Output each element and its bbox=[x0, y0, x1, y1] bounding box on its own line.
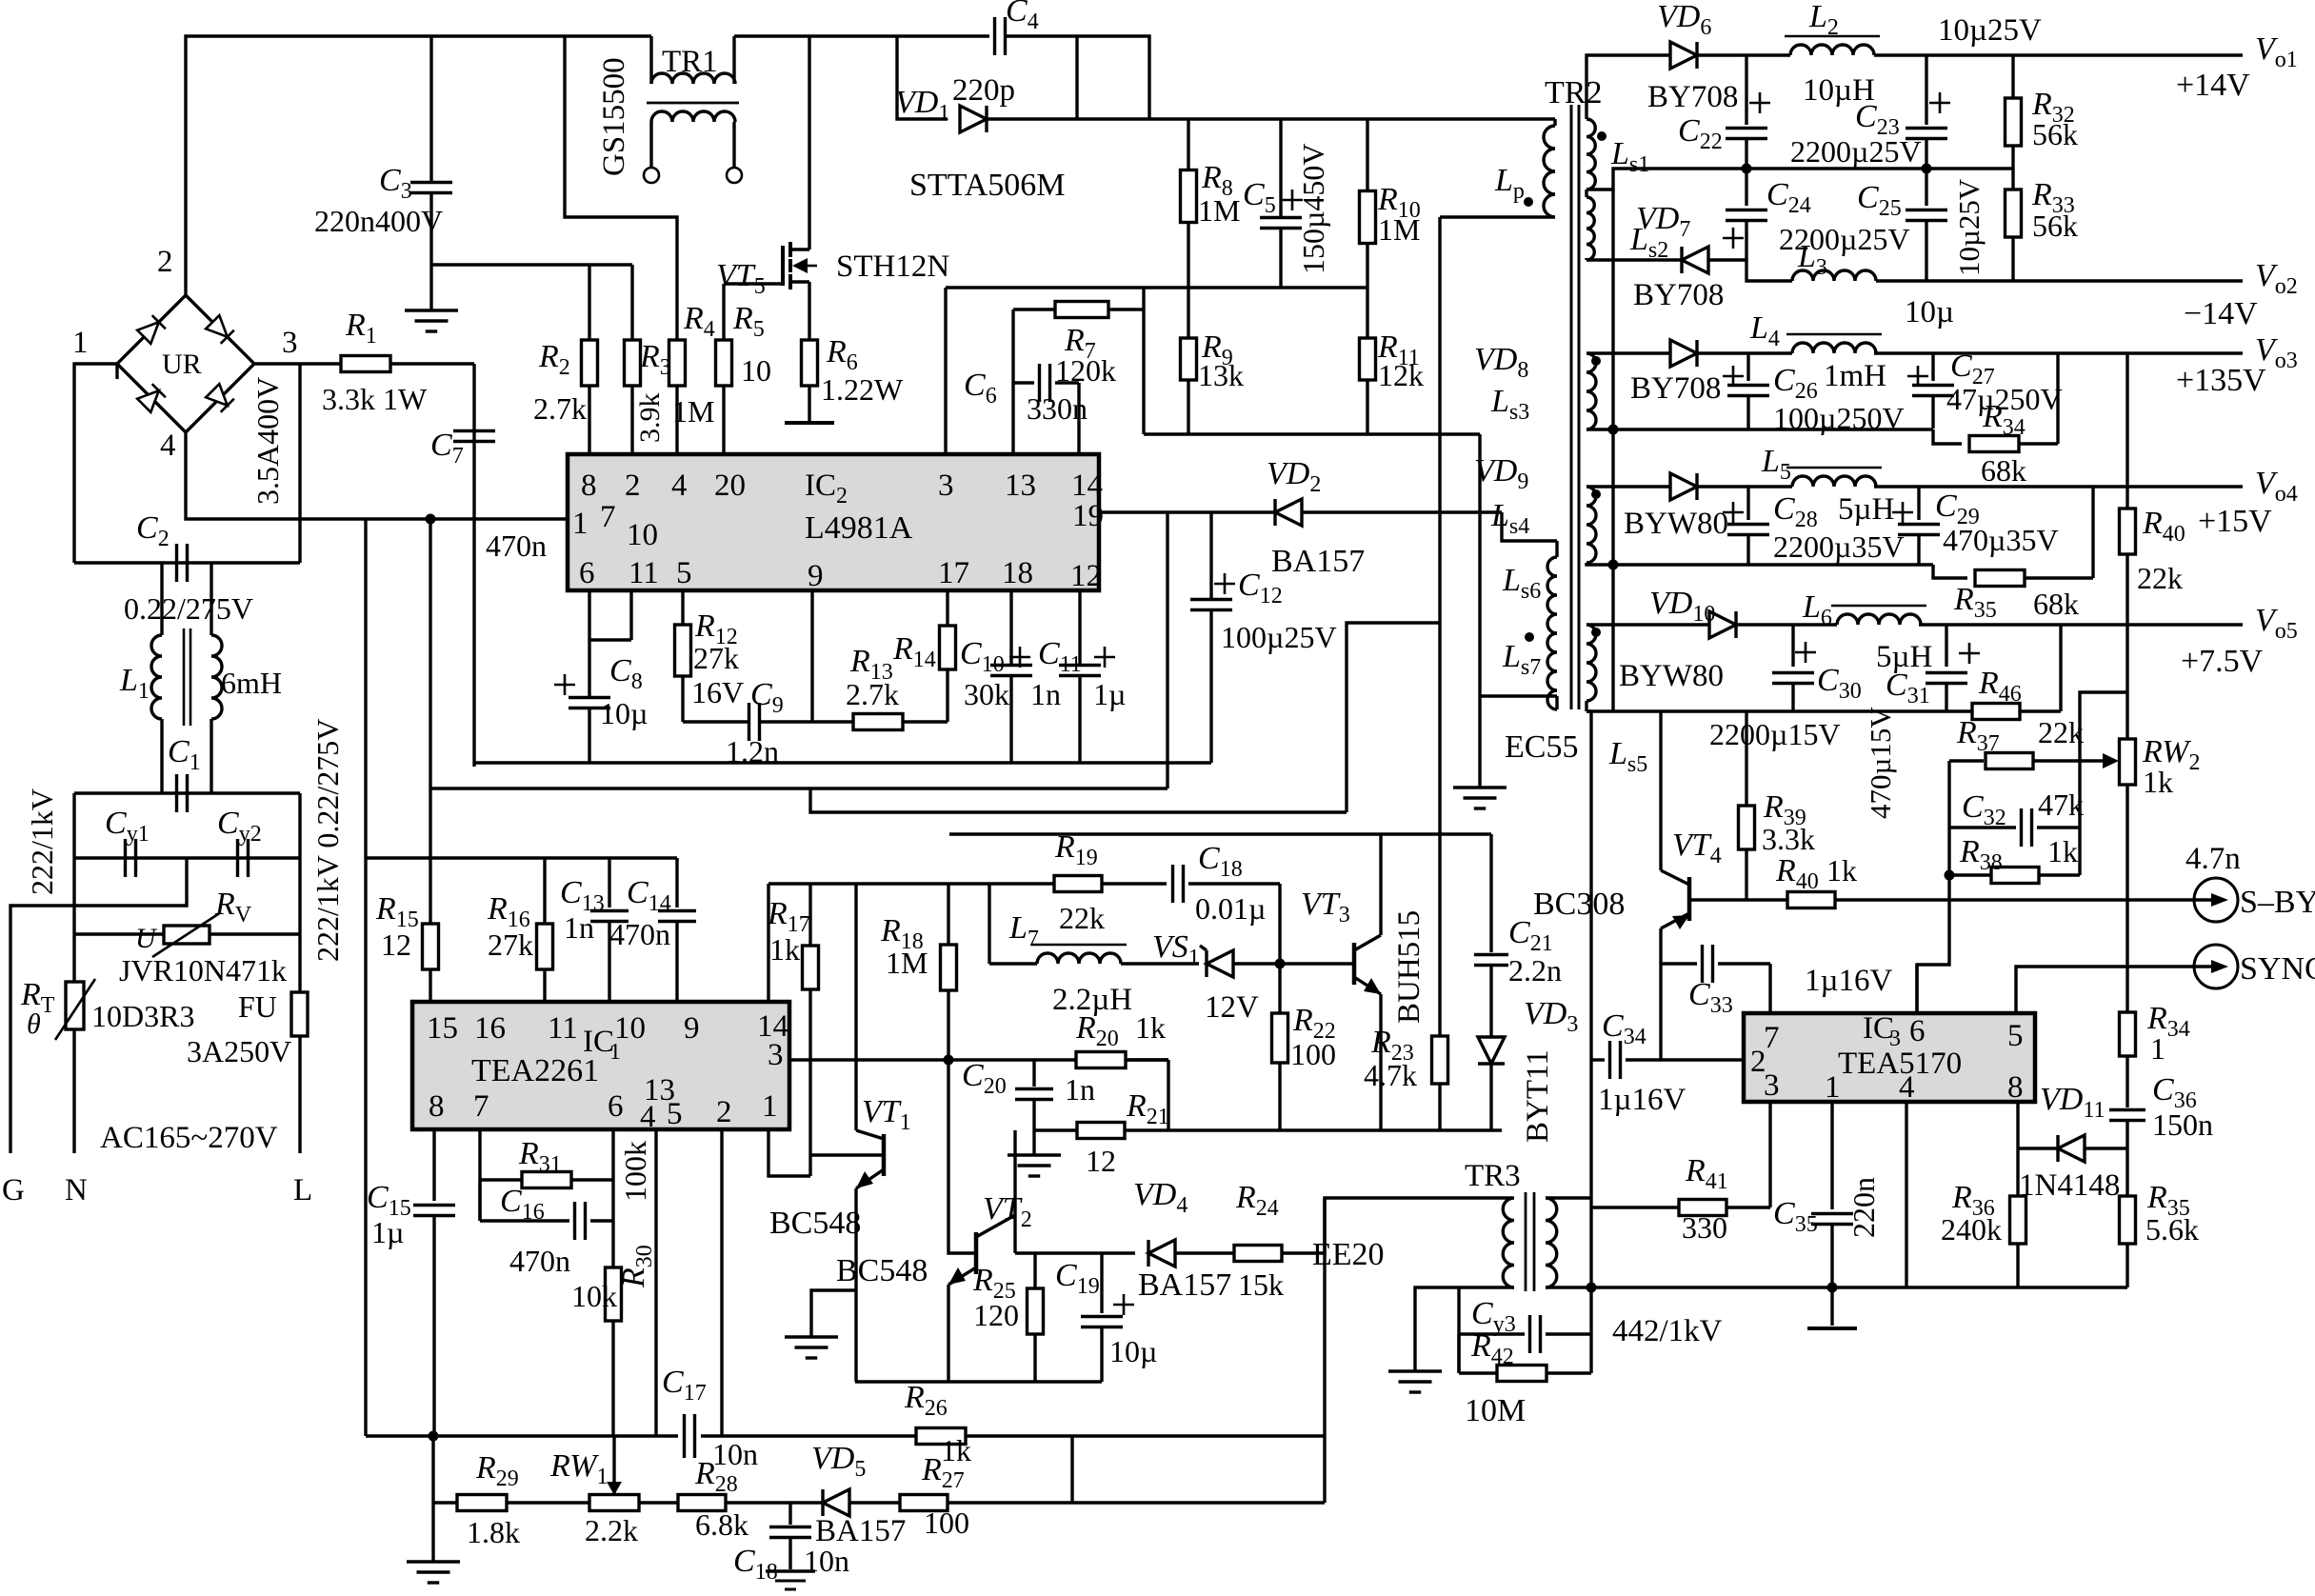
wire IC3 pin5 to SYNC bbox=[2016, 967, 2195, 1013]
svg-text:1n: 1n bbox=[1065, 1072, 1095, 1107]
row5 return wire bbox=[1587, 709, 1613, 712]
wire top bus drop to R4 bbox=[565, 36, 677, 339]
junction dot VT3 base node bbox=[1275, 959, 1286, 969]
svg-text:27k: 27k bbox=[488, 928, 533, 962]
diode VD11 1N4148 bbox=[2016, 1102, 2019, 1148]
svg-text:IC: IC bbox=[805, 469, 836, 503]
ground below C20 bbox=[1032, 1130, 1035, 1155]
diode VD5 BA157 bbox=[790, 1501, 823, 1504]
terminal SYNC bbox=[2194, 945, 2238, 988]
svg-text:222/1kV: 222/1kV bbox=[25, 788, 59, 895]
svg-text:3.3k 1W: 3.3k 1W bbox=[322, 382, 428, 416]
svg-text:GS15500: GS15500 bbox=[597, 57, 631, 176]
svg-text:1n: 1n bbox=[1030, 677, 1061, 711]
wire bus 876 VT3 collector link bbox=[949, 832, 1440, 835]
capacitor C4 in top bus bbox=[993, 17, 996, 55]
resistor R25 120 bbox=[1033, 1253, 1036, 1288]
svg-text:4: 4 bbox=[640, 1100, 656, 1134]
svg-text:G: G bbox=[2, 1173, 25, 1207]
resistor R17 1k bbox=[808, 884, 811, 946]
svg-text:12: 12 bbox=[1086, 1144, 1116, 1178]
svg-text:3A250V: 3A250V bbox=[187, 1034, 291, 1068]
svg-text:3: 3 bbox=[938, 469, 954, 503]
svg-text:470n: 470n bbox=[486, 529, 547, 563]
svg-text:10µ: 10µ bbox=[1905, 295, 1954, 329]
resistor R30 10k bbox=[611, 1221, 614, 1267]
resistor R4 bbox=[669, 340, 686, 386]
resistor R6 bbox=[802, 340, 818, 386]
svg-text:6mH: 6mH bbox=[221, 666, 282, 700]
wire TR3 secondary to 1671 column and bus bbox=[1546, 1196, 1591, 1199]
resistor R34b 1 bbox=[2125, 967, 2128, 1012]
wire VD2 to Ls6 top bbox=[1502, 512, 1557, 541]
svg-text:UR: UR bbox=[162, 349, 202, 380]
svg-text:2200µ25V: 2200µ25V bbox=[1779, 222, 1910, 256]
svg-text:U: U bbox=[135, 923, 158, 954]
svg-text:2: 2 bbox=[836, 484, 848, 509]
svg-text:22k: 22k bbox=[2038, 715, 2084, 749]
svg-text:3.9k: 3.9k bbox=[634, 393, 666, 444]
svg-text:10µ: 10µ bbox=[1109, 1334, 1157, 1368]
transformer TR2 core bbox=[1570, 105, 1573, 709]
svg-text:15: 15 bbox=[427, 1011, 458, 1046]
svg-text:1k: 1k bbox=[1826, 853, 1857, 888]
svg-text:S–BY: S–BY bbox=[2240, 885, 2315, 920]
junction dot common 451 bbox=[1608, 425, 1619, 435]
svg-text:1n: 1n bbox=[564, 910, 594, 945]
svg-text:BA157: BA157 bbox=[1138, 1267, 1231, 1303]
inductor L5 5uH bbox=[1792, 476, 1876, 487]
capacitor C30 electrolytic bbox=[1791, 625, 1794, 667]
svg-text:TR3: TR3 bbox=[1465, 1159, 1521, 1193]
capacitor C7 bbox=[472, 364, 475, 767]
wire R9 R11 bottom bus to primary ground bbox=[1144, 432, 1480, 435]
svg-text:1µ16V: 1µ16V bbox=[1805, 964, 1893, 998]
svg-text:20: 20 bbox=[714, 469, 746, 503]
svg-text:2.7k: 2.7k bbox=[533, 391, 587, 426]
wire IC3 pin6 riser bbox=[1915, 965, 1918, 1013]
capacitor C26 electrolytic bbox=[1746, 353, 1749, 381]
svg-text:56k: 56k bbox=[2032, 117, 2078, 151]
capacitor C21 2.2n bbox=[1440, 832, 1491, 835]
inductor L4 1mH bbox=[1792, 343, 1876, 353]
wire R15 column from 470n bus to IC1 pin15 bbox=[429, 519, 431, 924]
diode VD4 BA157 bbox=[1148, 1240, 1175, 1267]
svg-text:10M: 10M bbox=[1465, 1393, 1526, 1428]
svg-text:2: 2 bbox=[716, 1095, 732, 1129]
wire VT2 base from pin3 bus bbox=[948, 1060, 976, 1253]
svg-text:47k: 47k bbox=[2038, 788, 2084, 822]
resistor R13 bbox=[853, 714, 903, 730]
wire R21 bus to VT3 emitter and BYT11 bbox=[1168, 1128, 1502, 1131]
svg-text:330n: 330n bbox=[1027, 391, 1088, 426]
wire right rail C1 bus to FU bbox=[298, 793, 301, 992]
wire top bus TR1 to C4 segment bbox=[734, 34, 989, 37]
transformer TR1 bbox=[597, 36, 742, 183]
svg-text:BY708: BY708 bbox=[1647, 80, 1738, 114]
svg-text:BY708: BY708 bbox=[1633, 278, 1724, 312]
svg-text:2200µ25V: 2200µ25V bbox=[1790, 134, 1922, 169]
svg-text:13: 13 bbox=[1005, 469, 1036, 503]
svg-text:9: 9 bbox=[684, 1011, 700, 1046]
junction dot TR3 secondary bottom bbox=[1587, 1283, 1597, 1293]
IC2 L4981A box bbox=[568, 454, 1099, 590]
svg-text:θ: θ bbox=[27, 1008, 41, 1040]
wire VT4 collector from row5 return bbox=[1659, 711, 1662, 870]
wire bridge node3 to R1 bbox=[254, 362, 342, 365]
svg-text:5: 5 bbox=[676, 556, 692, 590]
svg-text:1: 1 bbox=[762, 1089, 778, 1124]
svg-text:7: 7 bbox=[600, 500, 616, 534]
transistor VT1 BC548 bbox=[769, 884, 911, 1382]
svg-text:47µ250V: 47µ250V bbox=[1946, 382, 2063, 416]
resistor R23 4.7k bbox=[1432, 1036, 1448, 1084]
svg-text:1: 1 bbox=[1825, 1070, 1841, 1105]
capacitor C10 bbox=[1009, 590, 1012, 665]
svg-text:16: 16 bbox=[474, 1011, 506, 1046]
diode VD8 BY708 bbox=[1635, 351, 1670, 354]
svg-text:AC165~270V: AC165~270V bbox=[100, 1121, 278, 1155]
svg-text:10µ25V: 10µ25V bbox=[1952, 178, 1986, 276]
svg-text:13k: 13k bbox=[1198, 358, 1244, 392]
wire bus 828 to VD2 riser bbox=[431, 787, 1167, 789]
wire IC1 pin7 pin6 R31 loop bbox=[478, 1129, 481, 1221]
svg-text:100k: 100k bbox=[618, 1141, 652, 1202]
svg-text:470µ15V: 470µ15V bbox=[1864, 707, 1897, 819]
capacitor Cy1 bbox=[74, 856, 300, 859]
diode VD7 BY708 bbox=[1682, 247, 1708, 273]
svg-text:8: 8 bbox=[429, 1089, 445, 1124]
svg-text:+14V: +14V bbox=[2176, 68, 2250, 103]
svg-text:10k: 10k bbox=[571, 1279, 617, 1313]
diode VD1 bypass bbox=[897, 36, 948, 119]
transformer TR3 EE20 bbox=[1312, 1159, 1557, 1291]
svg-text:1mH: 1mH bbox=[1824, 359, 1886, 393]
winding Ls5 bbox=[1587, 625, 1647, 777]
svg-text:+135V: +135V bbox=[2176, 363, 2266, 398]
svg-text:1: 1 bbox=[72, 326, 89, 360]
resistor R7 120k bbox=[1013, 288, 1144, 454]
svg-text:2200µ15V: 2200µ15V bbox=[1709, 717, 1841, 751]
resistor R33 56k bbox=[2011, 169, 2014, 190]
inductor L2 10uH bbox=[1790, 45, 1874, 55]
capacitor C9 bbox=[683, 720, 748, 723]
svg-text:12: 12 bbox=[381, 928, 411, 962]
junction dot on 470n bus bbox=[426, 514, 436, 525]
terminal S-BY bbox=[2194, 878, 2238, 922]
wire IC1 pin2 ground column bbox=[720, 1129, 723, 1436]
svg-text:STH12N: STH12N bbox=[836, 249, 949, 284]
inductor L1 common-mode choke bbox=[119, 563, 282, 793]
resistor R22 100 bbox=[1278, 964, 1281, 1013]
svg-text:150µ450V: 150µ450V bbox=[1296, 143, 1330, 274]
svg-text:+15V: +15V bbox=[2198, 504, 2272, 539]
row3 return wire bbox=[1613, 428, 1748, 430]
svg-text:1.8k: 1.8k bbox=[467, 1515, 520, 1549]
capacitor C19 electrolytic 10u bbox=[1100, 1253, 1103, 1313]
wire C18 drop to VS1 node bbox=[1278, 884, 1281, 964]
svg-text:BC308: BC308 bbox=[1533, 887, 1625, 922]
svg-text:5µH: 5µH bbox=[1838, 492, 1894, 527]
capacitor C1 bbox=[74, 791, 300, 794]
diode VD6 BY708 bbox=[1634, 53, 1670, 56]
wire IC1 pin3 bus bbox=[789, 1058, 1168, 1061]
capacitor C17 in bus bbox=[683, 1414, 686, 1458]
capacitor C31 electrolytic bbox=[1945, 625, 1947, 667]
svg-text:150n: 150n bbox=[2152, 1107, 2213, 1142]
resistor R1 bbox=[341, 356, 390, 372]
svg-text:1.22W: 1.22W bbox=[821, 372, 904, 407]
resistor R46 22k bbox=[1972, 704, 2020, 720]
wire IC3 ground bus 1348 bbox=[1591, 1286, 2127, 1288]
ground bar below R6 bbox=[785, 421, 834, 425]
svg-text:11: 11 bbox=[548, 1011, 578, 1046]
svg-text:330: 330 bbox=[1682, 1210, 1727, 1245]
resistor R14 bbox=[946, 590, 948, 627]
wire IC2 pin3 up to R7 C6 bus bbox=[944, 288, 947, 454]
wire C13 C14 bus 901 bbox=[366, 856, 677, 859]
svg-text:11: 11 bbox=[629, 556, 659, 590]
wire C3 branch to R2 R3 tops bbox=[431, 263, 632, 266]
wire TR3 primary column to bottom line bbox=[1323, 1198, 1326, 1503]
svg-text:100µ25V: 100µ25V bbox=[1221, 620, 1337, 654]
capacitor C13 1n bbox=[608, 858, 610, 908]
wire R29 RW1 R28 VD5 R27 line bbox=[433, 1501, 457, 1504]
resistor R21 12 bbox=[1034, 1128, 1077, 1131]
capacitor C35 220n bbox=[1830, 1102, 1833, 1209]
svg-text:4: 4 bbox=[1899, 1070, 1915, 1105]
svg-text:STTA506M: STTA506M bbox=[909, 168, 1066, 203]
svg-text:240k: 240k bbox=[1941, 1212, 2002, 1247]
wire left rail C1 bus to RT bbox=[72, 793, 75, 982]
svg-text:3.3k: 3.3k bbox=[1762, 822, 1815, 856]
resistor R40 22k bbox=[2125, 487, 2128, 509]
resistor R38 1k bbox=[1949, 873, 1991, 876]
wire rail Vo3 to R40 column crossing bbox=[2125, 353, 2128, 487]
svg-text:9: 9 bbox=[808, 559, 824, 593]
svg-text:18: 18 bbox=[1002, 556, 1033, 590]
resistor R35b 5.6k bbox=[2120, 1196, 2136, 1244]
svg-text:4.7n: 4.7n bbox=[2185, 842, 2241, 876]
wire R37 node jog to R40 column bbox=[2080, 692, 2127, 761]
svg-text:1M: 1M bbox=[1378, 212, 1420, 247]
resistor R35 68k bbox=[1975, 570, 2025, 587]
wire ground column below dot bbox=[431, 1436, 434, 1562]
svg-text:+7.5V: +7.5V bbox=[2181, 644, 2264, 679]
primary ground column and symbol bbox=[1478, 434, 1481, 788]
capacitor C20 1n bbox=[1032, 1060, 1035, 1087]
svg-text:3: 3 bbox=[768, 1038, 784, 1072]
winding Ls7 bbox=[1480, 632, 1557, 709]
svg-text:3: 3 bbox=[1764, 1068, 1780, 1103]
svg-text:BUH515: BUH515 bbox=[1392, 910, 1427, 1024]
inductor L7 2.2uH bbox=[988, 884, 990, 964]
row4 return wire bbox=[1613, 563, 1933, 566]
wire bus 853 to Lp column bbox=[810, 788, 1347, 812]
svg-text:1k: 1k bbox=[1135, 1010, 1166, 1045]
svg-text:22k: 22k bbox=[2137, 561, 2183, 595]
svg-text:16V: 16V bbox=[691, 675, 744, 709]
svg-text:1k: 1k bbox=[2047, 834, 2078, 868]
wire main ground bus 1508 bbox=[366, 1434, 678, 1437]
resistor R18 1M bbox=[947, 884, 949, 945]
svg-text:6: 6 bbox=[1909, 1014, 1926, 1048]
diode VD9 BYW80 bbox=[1635, 485, 1670, 488]
svg-text:27k: 27k bbox=[693, 641, 739, 675]
svg-text:5: 5 bbox=[2007, 1019, 2024, 1053]
diode VD10 BYW80 bbox=[1587, 623, 1709, 626]
svg-text:1µ16V: 1µ16V bbox=[1598, 1083, 1686, 1117]
wire VD4 R24 bus 1316 bbox=[1013, 1215, 1016, 1253]
resistor R24 15k bbox=[1234, 1246, 1282, 1262]
svg-text:68k: 68k bbox=[2033, 587, 2079, 621]
svg-text:10n: 10n bbox=[804, 1544, 849, 1578]
wire IC3 pin4 to ground bus bbox=[1905, 1102, 1907, 1287]
wire bus riser to R27 line bbox=[1070, 1436, 1073, 1503]
capacitor C8 electrolytic bbox=[569, 696, 610, 699]
svg-text:2: 2 bbox=[157, 245, 173, 279]
capacitor C27 electrolytic bbox=[1931, 353, 1934, 381]
wire R37 wiper line bbox=[1949, 759, 1984, 762]
svg-text:6: 6 bbox=[608, 1089, 624, 1124]
svg-text:15k: 15k bbox=[1238, 1267, 1284, 1302]
svg-text:2.2µH: 2.2µH bbox=[1052, 983, 1132, 1017]
winding Ls4 bbox=[1490, 487, 1635, 565]
winding Ls3 bbox=[1490, 353, 1635, 429]
resistor R42 10M bbox=[1497, 1366, 1547, 1382]
resistor R9 13k bbox=[1187, 288, 1189, 338]
svg-text:220n: 220n bbox=[1846, 1177, 1881, 1238]
capacitor Cy3 442/1kV bbox=[1457, 1287, 1460, 1373]
resistor R19 22k bbox=[989, 882, 1054, 885]
capacitor C28 electrolytic bbox=[1746, 487, 1749, 520]
wire bridge node1 down left rail bbox=[115, 364, 118, 379]
svg-text:1k: 1k bbox=[941, 1433, 971, 1467]
thermistor RT bbox=[66, 982, 84, 1029]
resistor R31 100k bbox=[480, 1178, 522, 1181]
wire common column Ls1 to Ls3 Ls4 bbox=[1611, 190, 1614, 429]
svg-text:TEA2261: TEA2261 bbox=[471, 1053, 599, 1088]
resistor R16 27k bbox=[543, 858, 546, 924]
svg-text:12k: 12k bbox=[1378, 358, 1424, 392]
fuse FU bbox=[291, 992, 308, 1036]
potentiometer RW1 2.2k bbox=[589, 1495, 639, 1511]
capacitor C14 470n bbox=[675, 858, 678, 908]
resistor R10 1M bbox=[1366, 119, 1368, 191]
wire C32 R38 left column to IC3 pin6 bbox=[1917, 761, 1949, 1013]
svg-text:120: 120 bbox=[973, 1298, 1019, 1332]
svg-text:5: 5 bbox=[667, 1097, 683, 1131]
svg-text:BC548: BC548 bbox=[836, 1253, 928, 1288]
svg-text:10D3R3: 10D3R3 bbox=[91, 999, 194, 1033]
svg-text:1M: 1M bbox=[672, 394, 714, 429]
svg-text:TR2: TR2 bbox=[1545, 75, 1602, 110]
wire R7 C6 node bus bbox=[946, 286, 1367, 289]
wire R24 to TR3 primary top bbox=[1325, 1198, 1512, 1253]
wire IC2 pin19 to VD2 bbox=[1099, 510, 1275, 513]
svg-text:3: 3 bbox=[282, 326, 298, 360]
capacitor C36 150n bbox=[2109, 1108, 2145, 1111]
svg-text:470n: 470n bbox=[609, 917, 670, 951]
svg-text:10: 10 bbox=[627, 518, 658, 552]
wire IC2 pin6 pin11 to C8 bbox=[588, 590, 590, 698]
svg-text:4: 4 bbox=[160, 429, 176, 463]
wire column 1671 VD3 C34 R41 TR3 bbox=[1589, 711, 1592, 1373]
svg-text:442/1kV: 442/1kV bbox=[1612, 1314, 1723, 1348]
svg-text:BC548: BC548 bbox=[769, 1206, 861, 1241]
resistor R36 240k bbox=[2010, 1196, 2026, 1244]
capacitor C11 electrolytic bbox=[1078, 590, 1081, 665]
svg-text:2200µ35V: 2200µ35V bbox=[1773, 529, 1905, 564]
winding Ls6 bbox=[1502, 541, 1557, 633]
resistor R3 bbox=[625, 340, 641, 386]
wire IC1 pin1 jog to R17 column bbox=[768, 1129, 810, 1176]
svg-text:10n: 10n bbox=[712, 1437, 758, 1471]
svg-text:BYW80: BYW80 bbox=[1624, 507, 1728, 541]
resistor R41 330 bbox=[1591, 1206, 1679, 1208]
capacitor C16 470n bbox=[478, 1180, 481, 1221]
svg-text:12V: 12V bbox=[1205, 990, 1259, 1025]
wire emitter bus 1451 bbox=[855, 1380, 1102, 1383]
svg-text:10: 10 bbox=[741, 353, 771, 388]
inductor L3 10u bbox=[1746, 260, 1792, 281]
svg-text:470µ35V: 470µ35V bbox=[1943, 523, 2059, 557]
resistor R40b 1k bbox=[1787, 892, 1835, 908]
svg-text:470n: 470n bbox=[509, 1244, 570, 1278]
svg-text:2.7k: 2.7k bbox=[846, 677, 899, 711]
zener VS1 12V bbox=[1207, 950, 1233, 977]
capacitor C6 330n bbox=[964, 364, 1088, 454]
svg-text:SYNC: SYNC bbox=[2240, 951, 2315, 987]
svg-text:1M: 1M bbox=[1198, 193, 1240, 228]
svg-text:2.2n: 2.2n bbox=[1508, 953, 1562, 988]
svg-text:10µ25V: 10µ25V bbox=[1938, 13, 2042, 48]
capacitor C29 electrolytic bbox=[1917, 487, 1920, 520]
svg-text:−14V: −14V bbox=[2184, 296, 2258, 331]
svg-text:1: 1 bbox=[572, 507, 589, 541]
wire VT4 base line bbox=[1689, 898, 1788, 901]
svg-text:1µ: 1µ bbox=[1093, 677, 1126, 711]
svg-text:220p: 220p bbox=[952, 73, 1015, 108]
wire Lp VT3 collector column bbox=[1438, 217, 1441, 1036]
transistor VT3 BUH515 bbox=[1301, 834, 1427, 1130]
capacitor C3 bbox=[429, 36, 432, 181]
svg-text:2.2k: 2.2k bbox=[585, 1513, 638, 1547]
svg-text:8: 8 bbox=[2007, 1070, 2024, 1105]
svg-text:1: 1 bbox=[609, 1040, 621, 1065]
svg-text:JVR10N471k: JVR10N471k bbox=[119, 953, 287, 988]
resistor R32 56k bbox=[2011, 55, 2014, 98]
svg-text:30k: 30k bbox=[964, 677, 1009, 711]
ground at VT1 emitter bbox=[811, 1290, 855, 1337]
wire TR3 primary bottom to ground bbox=[1415, 1287, 1514, 1371]
wire IC1 pin4 13 ground column bbox=[654, 1129, 657, 1436]
wire pin14 bus 928 bbox=[768, 882, 989, 885]
wire bridge node4 to IC2 pin1 bus bbox=[186, 432, 568, 519]
capacitor C18 0.01u bbox=[1171, 865, 1174, 903]
resistor R28 6.8k bbox=[678, 1495, 726, 1511]
wire Cy midpoint to earth G bbox=[10, 858, 187, 1153]
wire Ls1 Ls2 junction to mid rail bbox=[1587, 169, 1679, 190]
svg-text:22k: 22k bbox=[1059, 901, 1105, 935]
svg-text:0.01µ: 0.01µ bbox=[1195, 891, 1266, 926]
svg-text:3.5A400V: 3.5A400V bbox=[250, 377, 285, 505]
svg-text:19: 19 bbox=[1072, 499, 1104, 533]
svg-text:222/1kV 0.22/275V: 222/1kV 0.22/275V bbox=[310, 719, 345, 962]
capacitor C5 electrolytic 150u450V bbox=[1279, 119, 1282, 217]
resistor R39 3.3k bbox=[1745, 711, 1747, 806]
winding Ls1 bbox=[1587, 55, 1649, 190]
